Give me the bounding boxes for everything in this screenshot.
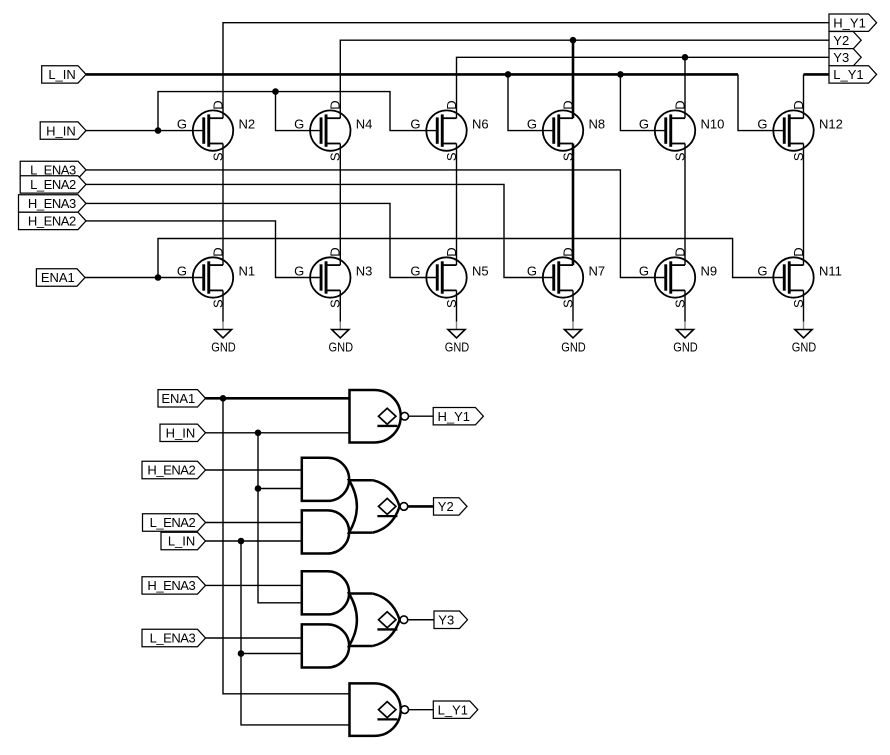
svg-text:L_IN: L_IN bbox=[48, 67, 75, 82]
hierarchical label L_Y1 (logic out) bbox=[433, 701, 478, 718]
ground bbox=[445, 322, 470, 355]
svg-text:S: S bbox=[791, 152, 806, 161]
wire L_IN to N10 gate bbox=[620, 74, 666, 130]
transistor N6 bbox=[410, 100, 488, 161]
wire N4 source to N3 drain bbox=[339, 144, 341, 266]
wire H_ENA3 to N5 gate bbox=[86, 203, 438, 277]
junction ENA1 branch bbox=[155, 274, 162, 281]
svg-text:GND: GND bbox=[211, 340, 236, 355]
junction L_IN to N10 bbox=[617, 71, 624, 78]
and gate Y2 lower bbox=[302, 510, 349, 553]
svg-text:H_ENA2: H_ENA2 bbox=[147, 463, 195, 478]
svg-text:Y3: Y3 bbox=[438, 612, 454, 627]
wire H_IN to N2 gate bbox=[86, 130, 205, 132]
wire H_IN riser to AND3 input bbox=[258, 433, 302, 603]
svg-text:D: D bbox=[791, 247, 806, 256]
svg-text:L_Y1: L_Y1 bbox=[833, 67, 863, 82]
hierarchical label H_Y1 (logic out) bbox=[433, 408, 483, 425]
wire H_ENA2 to N3 gate bbox=[86, 221, 322, 278]
svg-text:N11: N11 bbox=[819, 264, 842, 279]
or gate Y2 output (open-drain) bbox=[349, 480, 408, 532]
svg-text:S: S bbox=[328, 299, 343, 308]
wire L_ENA3 to AND4 input bbox=[206, 637, 302, 639]
ground bbox=[673, 322, 698, 355]
and gate Y2 upper bbox=[302, 458, 349, 501]
wire N8 source to N7 drain bbox=[572, 144, 575, 266]
svg-text:G: G bbox=[527, 117, 537, 132]
wire ENA1 to NAND A input bbox=[206, 397, 350, 400]
wire ENA1 to N11 gate bbox=[158, 239, 784, 278]
svg-text:D: D bbox=[444, 100, 459, 109]
wire H_Y1 net from N2 drain bbox=[223, 23, 829, 119]
svg-text:Y2: Y2 bbox=[438, 499, 454, 514]
junction H_IN to AND1 bbox=[255, 485, 262, 492]
hierarchical label H_ENA3 (logic) bbox=[142, 577, 206, 594]
or gate Y3 output (open-drain) bbox=[349, 594, 408, 646]
transistor N4 bbox=[294, 100, 372, 161]
svg-text:S: S bbox=[210, 152, 225, 161]
wire L_IN to N12 gate bbox=[738, 74, 784, 130]
hierarchical label H_IN bbox=[40, 122, 86, 139]
ground bbox=[329, 322, 354, 355]
svg-text:G: G bbox=[177, 264, 187, 279]
wire N3 source to GND bbox=[339, 290, 341, 321]
svg-text:N10: N10 bbox=[701, 117, 725, 132]
transistor N8 bbox=[527, 100, 605, 161]
svg-text:G: G bbox=[410, 264, 420, 279]
wire OR2 output to Y3 bbox=[408, 619, 434, 621]
transistor N10 bbox=[639, 100, 724, 161]
ground bbox=[561, 322, 586, 355]
svg-text:L_ENA2: L_ENA2 bbox=[150, 515, 196, 530]
svg-text:S: S bbox=[444, 152, 459, 161]
junction H_IN to N4 bbox=[272, 88, 279, 95]
nand gate H_Y1 (open-drain) bbox=[350, 390, 409, 443]
hierarchical label Y2 bbox=[829, 32, 861, 49]
ground bbox=[211, 322, 236, 355]
transistor N7 bbox=[527, 247, 605, 308]
transistor N5 bbox=[410, 247, 488, 308]
hierarchical label L_IN bbox=[42, 66, 86, 83]
wire H_IN to N4 gate bbox=[276, 92, 323, 131]
wire NAND2 output to L_Y1 bbox=[408, 709, 433, 711]
svg-text:S: S bbox=[672, 299, 687, 308]
svg-text:GND: GND bbox=[792, 340, 817, 355]
hierarchical label ENA1 (logic) bbox=[158, 390, 206, 407]
wire N1 source to GND bbox=[222, 290, 224, 321]
junction ENA1 riser bbox=[220, 395, 227, 402]
svg-text:G: G bbox=[294, 117, 304, 132]
svg-text:ENA1: ENA1 bbox=[41, 270, 75, 285]
transistor N1 bbox=[177, 247, 255, 308]
svg-text:S: S bbox=[672, 152, 687, 161]
svg-text:GND: GND bbox=[561, 340, 586, 355]
svg-text:S: S bbox=[328, 152, 343, 161]
svg-text:L_Y1: L_Y1 bbox=[438, 702, 468, 717]
svg-text:H_ENA3: H_ENA3 bbox=[28, 196, 76, 211]
svg-text:D: D bbox=[210, 247, 225, 256]
transistor N9 bbox=[639, 247, 717, 308]
wire L_Y1 segment bbox=[804, 73, 830, 76]
junction N8 drain on Y2 bbox=[570, 37, 577, 44]
wire Y3 net from N6 drain bbox=[457, 57, 830, 118]
wire L_ENA2 to N7 gate bbox=[86, 184, 555, 277]
svg-text:D: D bbox=[791, 100, 806, 109]
hierarchical label L_ENA3 bbox=[20, 161, 86, 178]
hierarchical label L_ENA2 (logic) bbox=[143, 514, 206, 531]
hierarchical label Y3 (logic out) bbox=[434, 611, 468, 628]
wire N10 drain riser bbox=[684, 57, 686, 118]
svg-text:N9: N9 bbox=[701, 264, 718, 279]
wire N2 source to N1 drain bbox=[222, 144, 224, 266]
svg-text:D: D bbox=[672, 247, 687, 256]
svg-text:S: S bbox=[210, 299, 225, 308]
wire N8 drain riser bbox=[572, 40, 575, 118]
ground bbox=[792, 322, 817, 355]
junction H_IN branch bbox=[155, 127, 162, 134]
svg-text:D: D bbox=[210, 100, 225, 109]
wire N5 source to GND bbox=[456, 290, 458, 321]
svg-text:N8: N8 bbox=[589, 117, 606, 132]
svg-text:N4: N4 bbox=[356, 117, 373, 132]
wire H_IN branch to AND1 input bbox=[258, 488, 302, 490]
svg-text:Y3: Y3 bbox=[833, 50, 849, 65]
svg-text:N1: N1 bbox=[239, 264, 256, 279]
wire H_IN to NAND A input B bbox=[206, 432, 350, 434]
svg-text:H_Y1: H_Y1 bbox=[438, 409, 471, 424]
junction L_IN to N8 bbox=[505, 71, 512, 78]
svg-text:N6: N6 bbox=[472, 117, 489, 132]
svg-text:N12: N12 bbox=[819, 117, 843, 132]
hierarchical label H_ENA2 (logic) bbox=[142, 461, 206, 478]
svg-text:H_ENA2: H_ENA2 bbox=[28, 214, 76, 229]
wire L_IN branch to AND4 input bbox=[241, 653, 302, 655]
wire Y2 net from N4 drain bbox=[340, 40, 829, 118]
and gate Y3 upper bbox=[302, 571, 349, 614]
svg-text:L_ENA2: L_ENA2 bbox=[30, 177, 76, 192]
svg-text:N7: N7 bbox=[589, 264, 606, 279]
svg-text:G: G bbox=[639, 117, 649, 132]
svg-text:N3: N3 bbox=[356, 264, 373, 279]
svg-text:S: S bbox=[560, 152, 575, 161]
svg-text:G: G bbox=[410, 117, 420, 132]
wire N10 source to N9 drain bbox=[684, 144, 686, 266]
hierarchical label H_IN (logic) bbox=[160, 424, 206, 441]
junction H_IN riser bbox=[255, 430, 262, 437]
svg-text:G: G bbox=[757, 264, 767, 279]
hierarchical label L_ENA2 bbox=[20, 176, 86, 193]
transistor N12 bbox=[757, 100, 842, 161]
wire N9 source to GND bbox=[684, 290, 686, 321]
svg-text:H_IN: H_IN bbox=[166, 426, 196, 441]
svg-text:D: D bbox=[672, 100, 687, 109]
svg-text:S: S bbox=[444, 299, 459, 308]
junction N10 drain on Y3 bbox=[682, 54, 689, 61]
wire L_IN to AND2 input bbox=[206, 540, 302, 542]
wire L_IN bus bbox=[86, 73, 738, 76]
hierarchical label H_Y1 bbox=[829, 14, 877, 31]
wire L_ENA3 to N9 gate bbox=[86, 170, 667, 278]
svg-text:S: S bbox=[791, 299, 806, 308]
svg-text:G: G bbox=[294, 264, 304, 279]
wire N12 source to N11 drain bbox=[803, 144, 805, 266]
wire N7 source to GND bbox=[572, 290, 574, 321]
wire L_ENA2 to AND2 input bbox=[206, 522, 302, 524]
wire H_ENA3 to AND3 input bbox=[206, 584, 302, 586]
hierarchical label H_ENA3 bbox=[19, 195, 87, 212]
wire NAND1 output to H_Y1 bbox=[408, 415, 433, 417]
wire H_IN chain to N6 gate bbox=[158, 92, 438, 131]
wire L_IN to N8 gate bbox=[508, 74, 555, 130]
svg-text:Y2: Y2 bbox=[833, 33, 849, 48]
hierarchical label Y3 bbox=[829, 49, 861, 66]
svg-text:G: G bbox=[639, 264, 649, 279]
svg-text:G: G bbox=[177, 117, 187, 132]
wire OR1 output to Y2 bbox=[408, 505, 434, 508]
wire L_IN riser to NAND2 input bbox=[241, 541, 350, 725]
svg-text:H_IN: H_IN bbox=[46, 123, 76, 138]
svg-text:N2: N2 bbox=[239, 117, 256, 132]
nand gate L_Y1 (open-drain) bbox=[350, 683, 409, 736]
hierarchical label ENA1 bbox=[36, 269, 85, 286]
junction L_IN to AND4 bbox=[238, 650, 245, 657]
wire N6 source to N5 drain bbox=[456, 144, 458, 266]
svg-text:S: S bbox=[560, 299, 575, 308]
svg-text:N5: N5 bbox=[472, 264, 489, 279]
transistor N3 bbox=[294, 247, 372, 308]
svg-text:G: G bbox=[757, 117, 767, 132]
wire N11 source to GND bbox=[803, 290, 805, 321]
svg-text:GND: GND bbox=[445, 340, 470, 355]
hierarchical label H_ENA2 bbox=[19, 212, 87, 229]
svg-text:D: D bbox=[444, 247, 459, 256]
hierarchical label L_ENA3 (logic) bbox=[142, 629, 206, 646]
svg-text:GND: GND bbox=[673, 340, 698, 355]
svg-text:H_ENA3: H_ENA3 bbox=[147, 578, 195, 593]
wire L_Y1 to N12 drain bbox=[803, 74, 805, 118]
svg-text:L_ENA3: L_ENA3 bbox=[150, 631, 196, 646]
svg-text:D: D bbox=[328, 100, 343, 109]
transistor N2 bbox=[177, 100, 255, 161]
hierarchical label L_IN (logic) bbox=[161, 532, 206, 549]
wire ENA1 to N1 gate bbox=[85, 277, 205, 279]
transistor N11 bbox=[757, 247, 842, 308]
wire H_ENA2 to AND1 input bbox=[206, 469, 302, 471]
svg-text:D: D bbox=[328, 247, 343, 256]
svg-text:L_IN: L_IN bbox=[168, 534, 195, 549]
svg-text:D: D bbox=[560, 247, 575, 256]
hierarchical label L_Y1 bbox=[829, 66, 877, 83]
svg-text:G: G bbox=[527, 264, 537, 279]
svg-text:D: D bbox=[560, 100, 575, 109]
svg-text:GND: GND bbox=[329, 340, 354, 355]
hierarchical label Y2 (logic out) bbox=[434, 498, 468, 515]
svg-text:H_Y1: H_Y1 bbox=[833, 15, 866, 30]
and gate Y3 lower bbox=[302, 624, 349, 667]
svg-text:ENA1: ENA1 bbox=[161, 391, 195, 406]
junction L_IN riser bbox=[238, 538, 245, 545]
wire ENA1 riser to NAND2 input bbox=[223, 398, 350, 694]
